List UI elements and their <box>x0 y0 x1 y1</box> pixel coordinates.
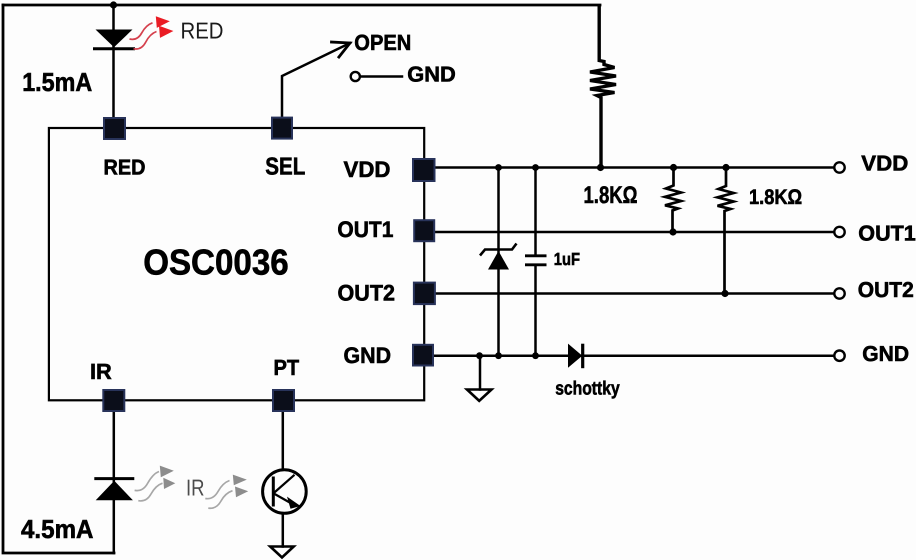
svg-text:IR: IR <box>186 475 205 501</box>
svg-text:schottky: schottky <box>555 378 620 399</box>
svg-text:OUT1: OUT1 <box>858 221 916 245</box>
svg-text:OUT2: OUT2 <box>858 278 914 302</box>
svg-text:GND: GND <box>862 342 909 366</box>
svg-text:OUT2: OUT2 <box>338 281 396 306</box>
svg-text:GND: GND <box>344 343 392 368</box>
svg-text:1.8KΩ: 1.8KΩ <box>749 186 802 209</box>
svg-text:VDD: VDD <box>344 157 391 182</box>
svg-text:SEL: SEL <box>265 153 305 180</box>
svg-text:PT: PT <box>274 355 300 380</box>
svg-text:1.8KΩ: 1.8KΩ <box>584 182 638 209</box>
svg-text:1uF: 1uF <box>554 249 580 269</box>
svg-text:OPEN: OPEN <box>354 30 411 55</box>
svg-text:OUT1: OUT1 <box>337 217 393 242</box>
svg-text:OSC0036: OSC0036 <box>143 242 289 283</box>
svg-text:4.5mA: 4.5mA <box>21 514 94 544</box>
svg-text:RED: RED <box>104 155 146 179</box>
svg-text:1.5mA: 1.5mA <box>22 67 92 97</box>
svg-text:GND: GND <box>407 63 456 87</box>
svg-text:IR: IR <box>90 359 112 384</box>
svg-text:RED: RED <box>181 18 224 44</box>
svg-text:VDD: VDD <box>861 151 908 175</box>
